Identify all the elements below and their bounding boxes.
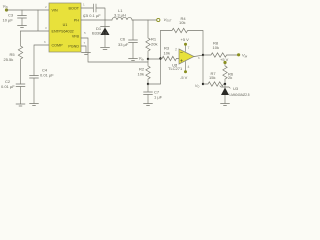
- wire COMP: [34, 45, 49, 76]
- svg-text:10k: 10k: [213, 45, 219, 50]
- svg-text:+5 V: +5 V: [181, 37, 190, 42]
- node summing: [159, 57, 161, 59]
- wire EN drop: [21, 10, 50, 31]
- resistor R7: [203, 82, 225, 86]
- ground: [30, 104, 39, 106]
- svg-text:10k: 10k: [164, 51, 170, 56]
- svg-text:U1: U1: [63, 23, 68, 27]
- svg-text:C7: C7: [154, 90, 160, 95]
- svg-text:C4: C4: [42, 68, 48, 73]
- svg-text:B330-13: B330-13: [92, 31, 108, 36]
- wire PH: [81, 19, 112, 21]
- svg-text:3.3 µH: 3.3 µH: [114, 13, 126, 18]
- wire down to R7: [202, 55, 204, 84]
- IC U1 TPS64032: [49, 3, 81, 52]
- svg-text:VIN: VIN: [52, 9, 58, 13]
- resistor R3: [161, 56, 180, 60]
- ground: [144, 104, 153, 106]
- ground: [129, 59, 138, 61]
- capacitor C3: [18, 10, 27, 26]
- svg-text:25.5k: 25.5k: [4, 57, 14, 62]
- svg-text:33 µF: 33 µF: [118, 42, 129, 47]
- node output junction: [202, 54, 204, 56]
- svg-text:PGND: PGND: [68, 45, 79, 49]
- svg-text:C2: C2: [5, 79, 11, 84]
- svg-text:+5 V: +5 V: [220, 57, 229, 62]
- node: [147, 83, 149, 85]
- resistor R5: [18, 31, 22, 84]
- svg-text:C3: C3: [8, 13, 14, 18]
- resistor R1: [146, 20, 150, 59]
- resistor R2: [146, 59, 150, 84]
- svg-text:15k: 15k: [209, 75, 215, 80]
- svg-text:1 µF: 1 µF: [154, 95, 163, 100]
- svg-text:BOOT: BOOT: [69, 7, 80, 11]
- svg-text:COMP: COMP: [52, 44, 64, 48]
- ground: [16, 104, 25, 106]
- svg-text:2: 2: [175, 48, 177, 52]
- ground: [101, 48, 110, 50]
- svg-text:R5: R5: [10, 52, 16, 57]
- svg-text:-5 V: -5 V: [180, 75, 188, 80]
- capacitor C5: [94, 4, 106, 20]
- IC pin numbers: [44, 3, 86, 46]
- svg-text:10k: 10k: [138, 72, 144, 77]
- svg-text:PH: PH: [74, 19, 79, 23]
- diode D1: [101, 20, 110, 47]
- IC pin labels: [52, 7, 80, 49]
- node output terminal: [237, 53, 240, 56]
- svg-text:TLC271: TLC271: [168, 66, 183, 71]
- wire output: [194, 55, 203, 56]
- wire Vout rail: [132, 19, 157, 21]
- node ref: [224, 83, 226, 85]
- resistor R8 output: [203, 53, 237, 57]
- svg-text:4: 4: [188, 65, 190, 69]
- wire VFB: [81, 38, 148, 62]
- svg-text:U3: U3: [233, 86, 239, 91]
- ground: [18, 26, 27, 28]
- svg-text:VFB: VFB: [72, 35, 80, 39]
- svg-text:0.01 µF: 0.01 µF: [1, 84, 15, 89]
- svg-text:C6: C6: [120, 37, 126, 42]
- node +5V terminal for R6: [223, 61, 226, 64]
- svg-text:10k: 10k: [179, 20, 185, 25]
- svg-text:R2: R2: [139, 67, 145, 72]
- svg-text:2k: 2k: [228, 75, 232, 80]
- svg-text:LM4040AIZ2.5: LM4040AIZ2.5: [230, 93, 250, 97]
- capacitor C2: [16, 84, 25, 104]
- shunt reference U3 LM4040: [220, 84, 230, 104]
- capacitor C4: [30, 76, 39, 104]
- svg-text:R3: R3: [164, 46, 170, 51]
- wire PGND: [81, 46, 86, 53]
- capacitor C7: [144, 84, 153, 104]
- svg-text:TPS64032: TPS64032: [56, 30, 73, 34]
- wire op-amp V-: [185, 62, 187, 71]
- svg-text:R1: R1: [151, 37, 157, 42]
- node: [202, 83, 204, 85]
- wire input rail: [7, 9, 50, 11]
- svg-text:20k: 20k: [151, 42, 157, 47]
- svg-text:C5 0.1 µF: C5 0.1 µF: [83, 13, 101, 18]
- node Vfb: [147, 58, 149, 60]
- resistor R4 feedback loop: [161, 28, 204, 55]
- op-amp U2 TLC271: [179, 49, 194, 64]
- inductor L1: [112, 17, 132, 20]
- wire: [148, 58, 161, 60]
- svg-text:10 µF: 10 µF: [3, 18, 14, 23]
- wire BOOT: [81, 7, 93, 9]
- resistor R6: [223, 64, 227, 84]
- capacitor C6: [129, 20, 138, 59]
- svg-text:0.01 µF: 0.01 µF: [40, 73, 54, 78]
- wire op-amp V+: [185, 46, 187, 52]
- node VOUT terminal: [157, 18, 160, 21]
- node VIN terminal: [5, 8, 8, 11]
- wire summing leg: [148, 31, 161, 85]
- ground: [82, 53, 91, 55]
- ground: [221, 104, 230, 106]
- svg-text:7: 7: [188, 46, 190, 50]
